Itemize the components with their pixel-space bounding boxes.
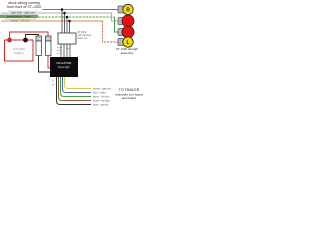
- lamp brake2: [122, 26, 134, 38]
- wire tap T3 from W3: [66, 17, 68, 33]
- note: TO TRAILER caption: [115, 88, 143, 100]
- wire BT1- to F1 (black): [26, 35, 39, 39]
- svg-text:orange - left turn: orange - left turn: [10, 19, 30, 23]
- wire W4 drop to lamp4 (dashed): [103, 21, 119, 42]
- svg-text:white - ground: white - ground: [93, 103, 109, 106]
- svg-text:br: br: [58, 85, 60, 88]
- wire U1 out black ground: [57, 77, 92, 105]
- fuse F1: [36, 36, 42, 56]
- wire J1 to U1 pin4: [69, 44, 71, 57]
- note: U1 output pin labels: [52, 80, 60, 88]
- svg-text:light blue - right turn: light blue - right turn: [11, 11, 35, 15]
- socket lamp brake1: [118, 18, 124, 25]
- isolator U1: [50, 57, 78, 77]
- wire U1 out green: [61, 77, 92, 97]
- svg-text:from QC: from QC: [58, 65, 70, 69]
- svg-text:L: L: [126, 40, 129, 46]
- note: isolator U1 label: [57, 61, 73, 69]
- socket lamp R: [118, 6, 124, 13]
- wire tap T2 from W2: [64, 13, 66, 33]
- socket lamp L: [118, 39, 124, 46]
- note: connector J1 label: [78, 31, 93, 40]
- wire J1 to U1 pin3: [66, 44, 68, 57]
- junction on W4: [68, 20, 71, 23]
- battery BT1: [5, 40, 34, 61]
- wire J1 to U1 pin1: [60, 44, 62, 57]
- terminal BT1 negative: [23, 38, 28, 43]
- svg-text:battery: battery: [14, 51, 24, 55]
- wire W1 green right-turn: [43, 9, 119, 11]
- svg-text:brown - tail light: brown - tail light: [93, 99, 110, 102]
- wire W2 gray tail: [1, 12, 112, 14]
- wire U1 out blue: [63, 77, 92, 93]
- wire U1 out brown: [59, 77, 92, 101]
- wire J1 to U1 pin2: [63, 44, 65, 57]
- label W4 orange wire: [5, 19, 36, 23]
- svg-text:green - left turn: green - left turn: [93, 95, 110, 98]
- svg-text:green/yellow - brake: green/yellow - brake: [7, 15, 32, 19]
- wire U1 out yellow: [65, 77, 92, 89]
- svg-text:blue - brake: blue - brake: [93, 91, 106, 94]
- wire W4 orange left-turn: [1, 20, 103, 22]
- connector J1 box: [58, 33, 76, 44]
- wire tap T4 from W4: [69, 21, 71, 33]
- lamp R (right turn): [123, 4, 133, 14]
- label W3 green wire: [0, 15, 38, 19]
- terminal BT1 positive: [7, 38, 12, 43]
- note: stock wiring title: [7, 1, 41, 9]
- svg-text:R: R: [126, 7, 130, 13]
- svg-text:from front of ST-1300: from front of ST-1300: [7, 5, 41, 9]
- wire F2 to U1 (red): [48, 56, 50, 69]
- svg-text:lt grn: lt grn: [57, 46, 63, 49]
- junction on W2: [63, 12, 66, 15]
- wire BT1+ to F2 (red): [10, 32, 49, 38]
- lamp L (left turn): [123, 37, 133, 47]
- note: pin labels J1-U1: [57, 46, 70, 55]
- note: battery BT1 label: [13, 47, 25, 55]
- fuse F2: [46, 36, 52, 56]
- svg-text:TO TRAILER: TO TRAILER: [119, 88, 140, 92]
- wire W2 drop to lamp2: [112, 13, 119, 21]
- junction on W3: [66, 16, 69, 19]
- wire W3 drop to lamp3: [115, 17, 119, 32]
- junction on W1: [61, 8, 64, 11]
- wire W3 green-yellow brake (striped): [1, 16, 115, 18]
- svg-text:that I cut: that I cut: [78, 37, 88, 40]
- label W2 gray wire: [8, 11, 38, 15]
- wire tap T1 from W1: [61, 10, 63, 34]
- lamp brake1: [122, 15, 134, 27]
- note: trailer wire labels: [93, 87, 112, 106]
- note: tail light assembly caption: [116, 47, 138, 55]
- svg-text:yellow - right turn: yellow - right turn: [93, 87, 112, 90]
- svg-text:and brake): and brake): [122, 96, 136, 100]
- socket lamp brake2: [118, 29, 124, 36]
- wire F1 to U1 (black): [39, 56, 51, 73]
- svg-text:assembly: assembly: [121, 51, 134, 55]
